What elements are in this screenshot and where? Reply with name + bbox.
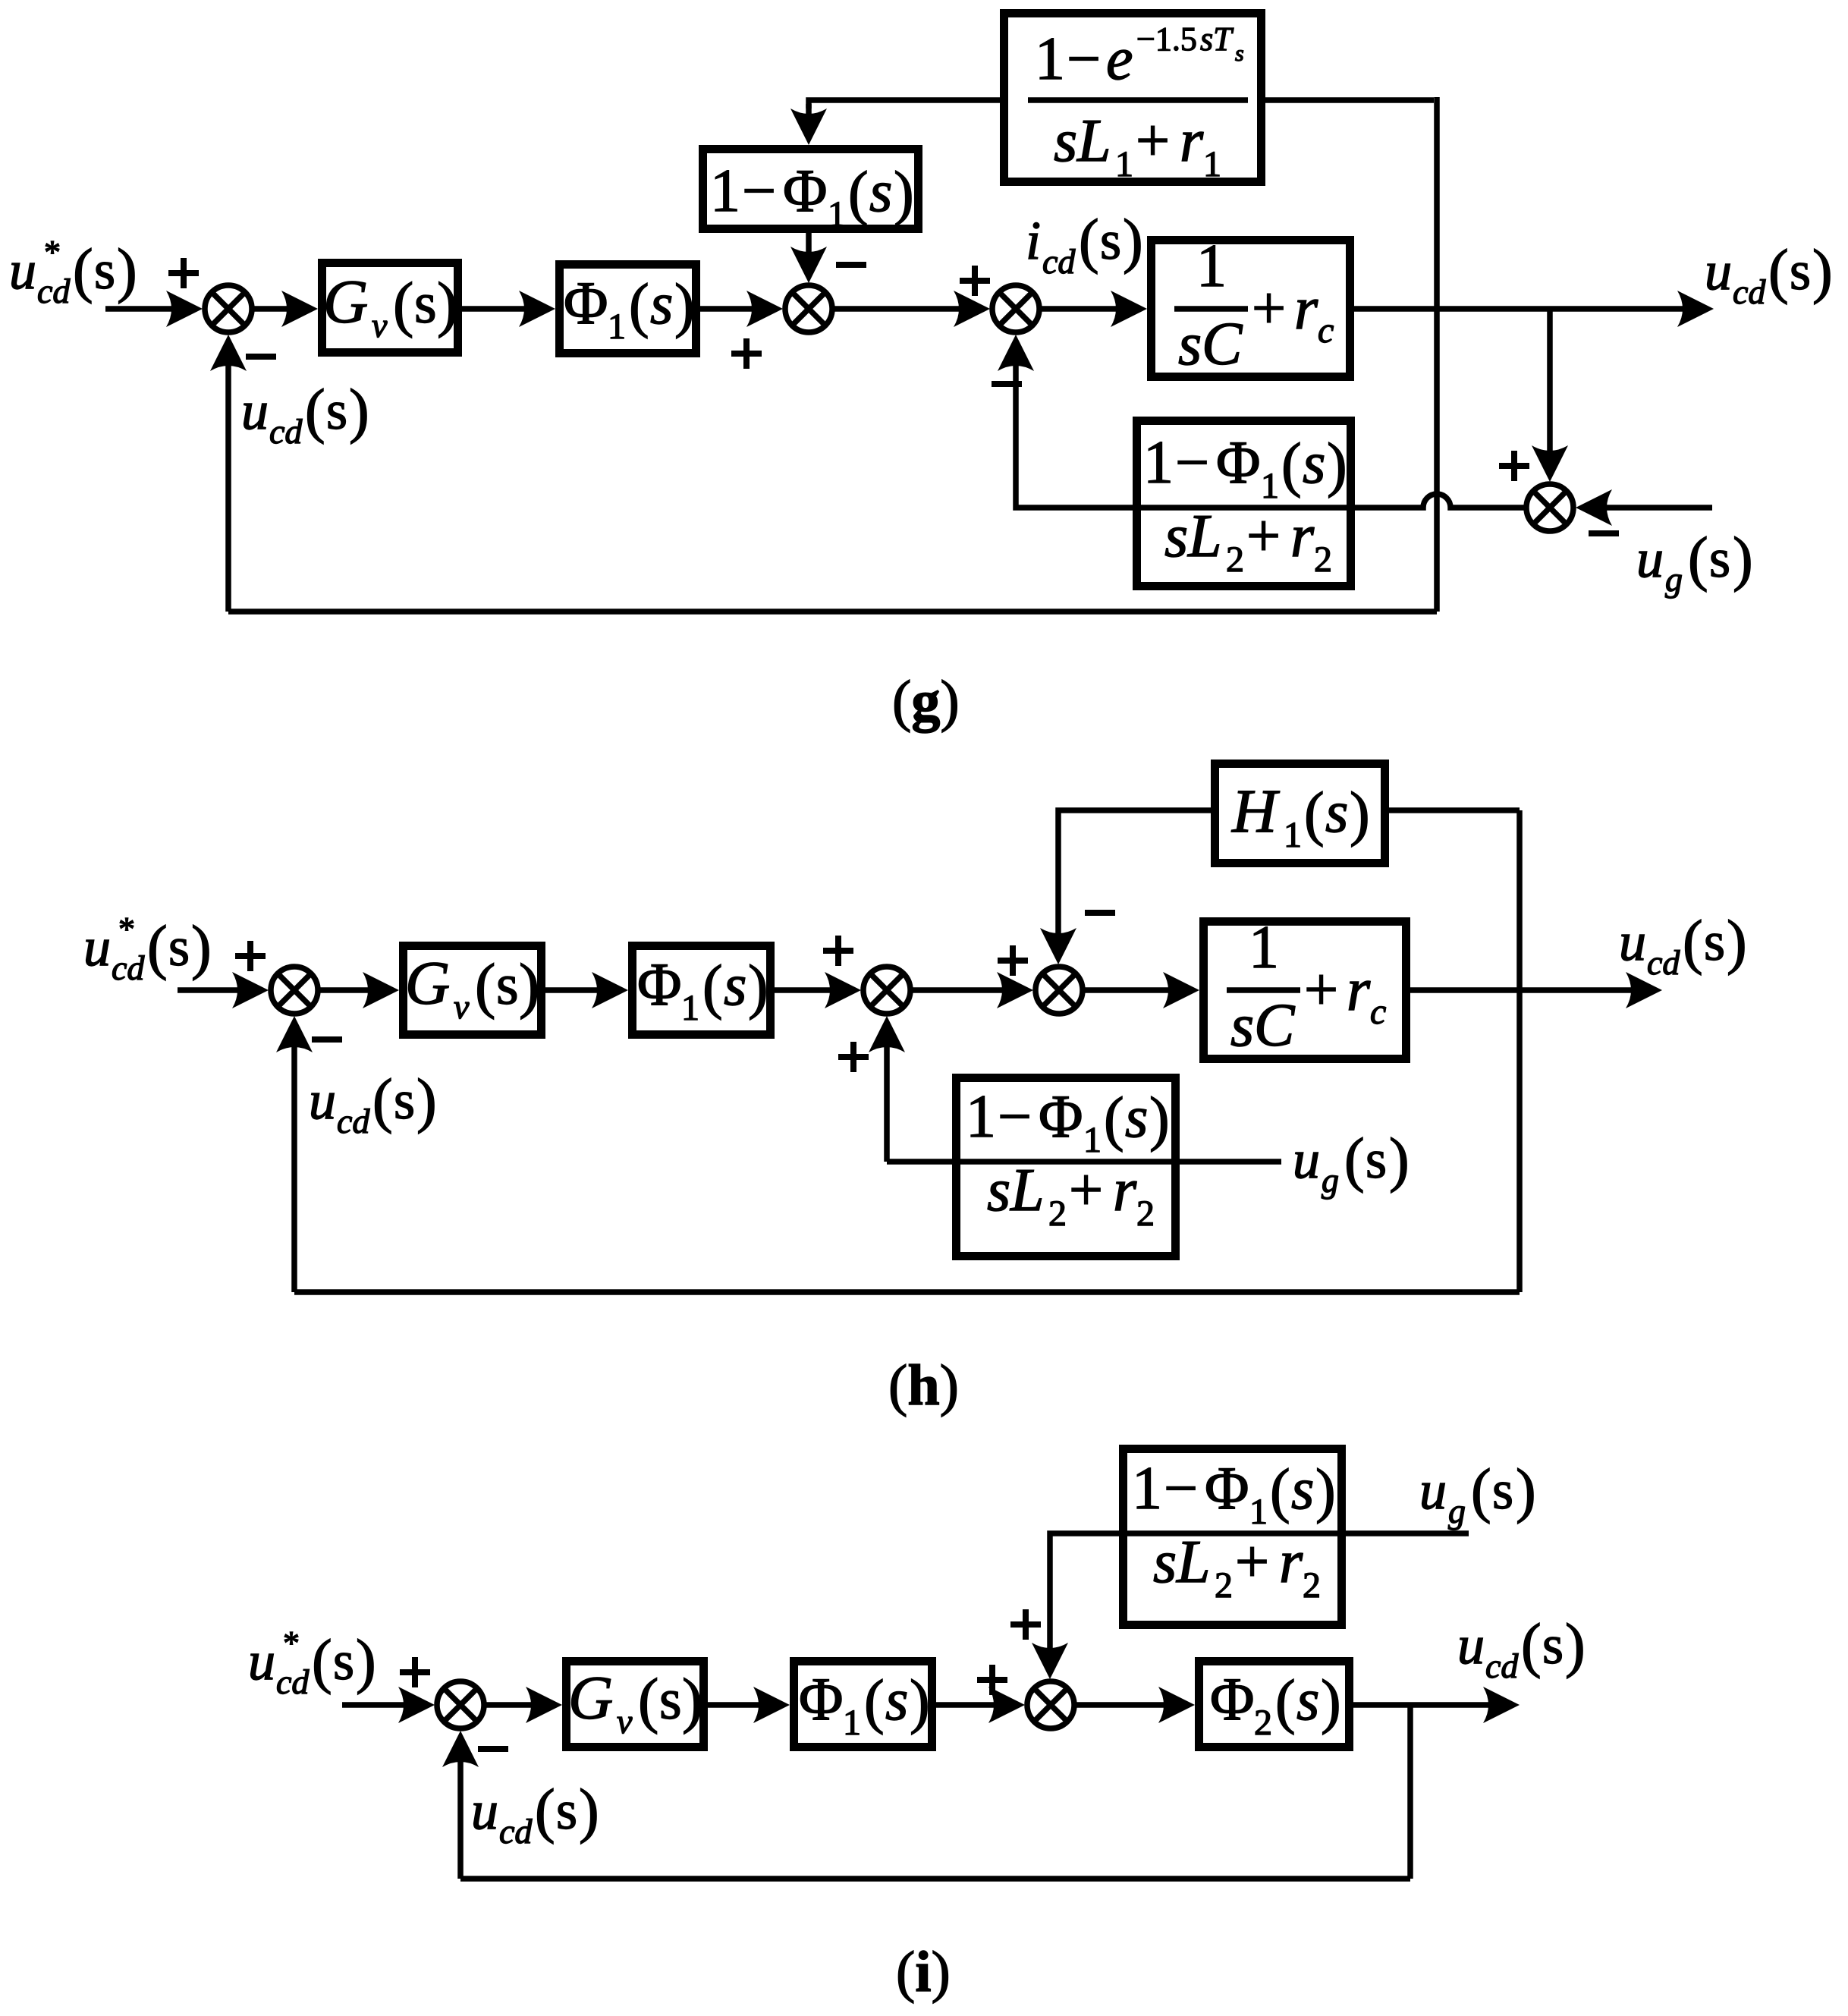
minus at sum4	[1589, 533, 1619, 534]
plus at i-sum1	[400, 1657, 430, 1687]
minus at sum3 bottom	[992, 383, 1022, 385]
wire sum3 to 1/sC box	[1039, 306, 1119, 312]
block Phi1(s) (i)	[794, 1662, 932, 1747]
feedback vertical (i)	[1407, 1705, 1413, 1879]
svg-text:−: −	[1067, 26, 1101, 93]
block 1-phi1/sL2+r2 (g)	[1133, 421, 1355, 587]
block 1-phi1/sL2+r2 (h)	[952, 1078, 1180, 1256]
label icd(s)	[1026, 208, 1143, 281]
summing junction h-sum2	[863, 967, 910, 1014]
bottom feedback wire	[228, 609, 1437, 615]
wire from ucd vertical to block input (right side)	[1265, 97, 1434, 103]
wire Phi1 to i-sum2	[936, 1702, 997, 1708]
bottom feedback wire (i)	[460, 1876, 1410, 1882]
svg-text:s: s	[1230, 992, 1254, 1059]
label ucd*(s) input (i)	[248, 1624, 376, 1701]
minus at h-sum1	[312, 1039, 342, 1040]
wire h-sum2 to h-sum3	[910, 987, 1005, 993]
H1 left wire + drop to sum3	[1058, 810, 1211, 933]
summing junction g-sum4	[1526, 484, 1573, 531]
plus above-left sum3	[960, 266, 990, 296]
minus at h-sum3	[1085, 912, 1115, 914]
summing junction h-sum1	[271, 967, 318, 1014]
plus below-left sum2	[731, 338, 762, 369]
svg-text:c: c	[1370, 992, 1386, 1032]
wire 1-phi1 box to sum2, arrow down	[806, 233, 812, 252]
svg-text:): )	[1350, 781, 1370, 848]
svg-text:sT: sT	[1200, 20, 1234, 58]
ucd feedback vertical line (right)	[1434, 97, 1440, 612]
vertical branch to sum4	[1547, 309, 1553, 451]
label ucd(s) output	[1705, 238, 1833, 311]
block 1-phi1(s)	[703, 149, 919, 235]
wire i-sum2 to Phi2	[1074, 1702, 1167, 1708]
svg-text:s: s	[1178, 311, 1202, 378]
block H1(s)	[1215, 764, 1385, 863]
svg-text:r: r	[1294, 275, 1318, 342]
minus at sum2	[836, 264, 866, 266]
input wire	[105, 306, 174, 312]
block 1/sC + rc (g)	[1152, 233, 1350, 378]
summing junction i-sum2	[1027, 1681, 1074, 1728]
output wire (h)	[1410, 987, 1634, 993]
svg-text:(i): (i)	[896, 1940, 951, 2004]
svg-text:C: C	[1202, 311, 1243, 378]
label ug(s) (i)	[1419, 1458, 1536, 1530]
svg-text:+: +	[1304, 957, 1338, 1024]
block Phi1(s)	[560, 265, 696, 354]
wire Gv to Phi1 (h)	[545, 987, 600, 993]
box left elbow down to i-sum2	[1050, 1533, 1119, 1648]
svg-text:H: H	[1231, 776, 1280, 845]
label ucd(s) output (h)	[1619, 909, 1747, 982]
label ug(s) (h)	[1293, 1127, 1410, 1200]
ug wire right (i)	[1346, 1530, 1469, 1536]
wire Phi1 to sum2	[700, 306, 755, 312]
wire block output left + elbow down	[809, 100, 1000, 109]
ug wire into sum4	[1604, 505, 1712, 511]
plus above-left h-sum3	[998, 945, 1028, 976]
svg-text:−1.5: −1.5	[1136, 20, 1197, 58]
svg-text:+: +	[1252, 275, 1286, 342]
block Phi2(s)	[1199, 1662, 1350, 1747]
svg-text:1: 1	[1249, 914, 1279, 981]
input wire (h)	[178, 987, 240, 993]
svg-text:r: r	[1347, 957, 1371, 1024]
minus at sum1 feedback	[246, 356, 276, 357]
block Phi1(s) (h)	[633, 946, 771, 1035]
svg-text:e: e	[1106, 26, 1133, 93]
wire Gv to Phi1 (i)	[708, 1702, 762, 1708]
svg-text:(h): (h)	[888, 1354, 959, 1417]
block Gv(s) (h)	[404, 946, 542, 1035]
ug wire right (h)	[1180, 1159, 1281, 1165]
arrow into 1-phi1 box top	[790, 109, 827, 145]
riser into h-sum2 from 1-phi1 box	[884, 1047, 890, 1162]
plus beside riser (i)	[1010, 1609, 1041, 1640]
wire box to sum3 riser	[1016, 366, 1133, 508]
label ucd*(s) input	[9, 234, 137, 310]
block 1-phi1/sL2+r2 (i)	[1119, 1449, 1346, 1625]
minus at i-sum1	[478, 1748, 508, 1750]
label ucd*(s) input (h)	[83, 911, 212, 987]
left feedback riser (i)	[457, 1762, 464, 1879]
block Gv(s)	[322, 263, 458, 353]
wire sum4 to sL2 box with hop over vertical	[1355, 494, 1526, 508]
plus at h-sum1	[235, 941, 266, 971]
svg-text:1: 1	[1196, 233, 1227, 300]
wire sum1 to Gv (i)	[484, 1702, 534, 1708]
summing junction g-sum1	[205, 285, 252, 332]
summing junction i-sum1	[437, 1681, 484, 1728]
left feedback riser (h)	[291, 1047, 297, 1292]
feedback vertical right (h)	[1516, 810, 1523, 1292]
svg-text:s: s	[1325, 778, 1348, 844]
wire Phi1 to h-sum2	[775, 987, 833, 993]
svg-text:1: 1	[1284, 815, 1302, 855]
label ucd(s) feedback (h)	[309, 1068, 437, 1140]
output wire (i)	[1353, 1702, 1491, 1708]
input wire (i)	[342, 1702, 407, 1708]
svg-text:s: s	[1235, 41, 1244, 66]
wire sum1 to Gv	[252, 306, 290, 312]
plus at sum4 top	[1499, 451, 1529, 481]
label ucd(s) output (i)	[1457, 1612, 1586, 1685]
bottom feedback wire (h)	[294, 1289, 1520, 1295]
block 1-e^-1.5sTs / sL1+r1	[1004, 14, 1262, 185]
label ucd(s) feedback	[241, 378, 369, 451]
wire sum2 to sum3	[832, 306, 962, 312]
wire box left elbow (h)	[887, 1159, 952, 1165]
output wire ucd(s)	[1354, 306, 1686, 312]
summing junction h-sum3	[1036, 967, 1083, 1014]
left feedback riser	[225, 366, 231, 612]
wire Gv to Phi1	[460, 306, 527, 312]
block Gv(s) (i)	[567, 1662, 704, 1747]
svg-text:(g): (g)	[892, 669, 960, 733]
summing junction g-sum2	[785, 285, 832, 332]
H1 right wire to feedback vertical	[1389, 807, 1520, 813]
plus above-left i-sum2	[977, 1665, 1007, 1695]
svg-text:1: 1	[1035, 26, 1065, 93]
plus at sum1	[168, 258, 199, 288]
plus below h-sum2	[838, 1042, 869, 1072]
summing junction g-sum3	[992, 285, 1039, 332]
label ug(s)	[1636, 526, 1753, 599]
svg-text:C: C	[1254, 992, 1296, 1059]
wire h-sum3 to 1/sC (h)	[1083, 987, 1171, 993]
wire sum1 to Gv (h)	[318, 987, 371, 993]
block 1/sC + rc (h)	[1204, 914, 1406, 1059]
plus above h-sum2	[823, 936, 853, 966]
svg-text:(: (	[1304, 781, 1325, 848]
label ucd(s) feedback (i)	[471, 1778, 599, 1851]
svg-text:c: c	[1318, 310, 1334, 351]
